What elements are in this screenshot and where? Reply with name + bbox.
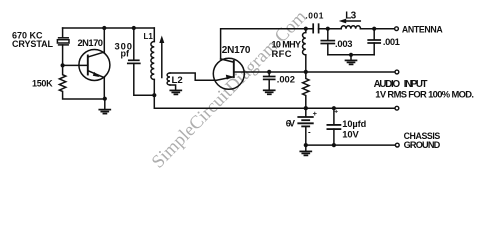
svg-text:L1: L1 bbox=[144, 32, 154, 41]
terminal: antenna bbox=[395, 27, 399, 31]
svg-text:L3: L3 bbox=[345, 11, 356, 22]
wire: rail right of series cap bbox=[319, 28, 342, 30]
node: .001 right junction bbox=[372, 27, 376, 31]
node A: crystal/base/150K junction bbox=[61, 63, 65, 67]
wire: base of Q1 bbox=[63, 64, 88, 66]
ground below C3 bbox=[264, 90, 275, 94]
transistor Q1 2N170 bbox=[79, 50, 110, 81]
svg-text:6V: 6V bbox=[286, 118, 295, 128]
svg-text:L2: L2 bbox=[172, 75, 183, 86]
svg-text:RFC: RFC bbox=[272, 48, 292, 59]
svg-text:pf: pf bbox=[121, 49, 131, 59]
wire: Q1 collector bbox=[103, 28, 105, 52]
node: 10ufd top junction bbox=[332, 106, 336, 110]
svg-text:10V: 10V bbox=[342, 128, 359, 139]
svg-text:.001: .001 bbox=[383, 36, 400, 47]
wire: tank bottom to ground rail bbox=[154, 95, 395, 108]
wire: Q2 base wire right (audio line) bbox=[234, 71, 395, 73]
node: emitter/ground junction bbox=[103, 97, 107, 101]
capacitor C3 .002 bbox=[264, 72, 275, 90]
node: 10ufd bottom junction bbox=[332, 143, 336, 147]
wire: bottom ground rail bbox=[306, 144, 395, 146]
svg-text:.001: .001 bbox=[305, 10, 323, 20]
svg-text:-: - bbox=[308, 127, 311, 136]
svg-text:.003: .003 bbox=[335, 38, 353, 49]
resistor R1 150K bbox=[59, 65, 104, 99]
battery B1 6V bbox=[298, 108, 313, 145]
node: .002 junction bbox=[267, 70, 271, 74]
svg-text:1V RMS FOR 100% MOD.: 1V RMS FOR 100% MOD. bbox=[375, 88, 474, 99]
svg-text:.002: .002 bbox=[277, 73, 295, 84]
node: battery bottom junction bbox=[304, 143, 308, 147]
node: .003 junction bbox=[326, 27, 330, 31]
capacitor C4 .001 series (plates) bbox=[313, 24, 318, 32]
inductor RFC 10MHY bbox=[303, 29, 306, 72]
wire: Q2 collector up to rail corner bbox=[221, 29, 314, 59]
capacitor C7 10ufd electrolytic bbox=[327, 108, 340, 145]
svg-text:+: + bbox=[334, 109, 338, 116]
crystal X1 670KC bbox=[57, 38, 69, 66]
svg-text:2N170: 2N170 bbox=[222, 45, 251, 56]
svg-text:+: + bbox=[313, 109, 318, 118]
ground below L2 bbox=[170, 90, 181, 94]
terminal: audio input top bbox=[395, 70, 399, 74]
wire: top-left rail y=28 bbox=[63, 27, 155, 29]
node: ground stub junction bbox=[349, 53, 353, 57]
svg-text:GROUND: GROUND bbox=[404, 140, 441, 150]
svg-text:ANTENNA: ANTENNA bbox=[402, 24, 443, 34]
arrow of L3 bbox=[339, 19, 361, 24]
arrow of L1 (tuning) bbox=[159, 36, 164, 78]
capacitor C5 .003 bbox=[321, 29, 334, 55]
ground below .003/.001 bbox=[346, 55, 357, 65]
wire: rail right of L3 bbox=[361, 28, 395, 30]
svg-text:10µfd: 10µfd bbox=[342, 119, 366, 129]
node: R2 bottom junction bbox=[304, 106, 308, 110]
svg-text:150K: 150K bbox=[32, 79, 53, 89]
node: L1/300pf bottom junction bbox=[152, 93, 156, 97]
ground below battery bbox=[300, 145, 311, 155]
wire: cap bottoms link bbox=[328, 54, 374, 56]
inductor L2 bbox=[167, 73, 176, 90]
node: RFC top junction on rail bbox=[304, 27, 308, 31]
watermark bbox=[148, 7, 311, 173]
resistor R2 (emitter/audio) bbox=[303, 72, 309, 108]
wire: L2 to Q2 emitter bbox=[170, 73, 217, 80]
node: battery top junction bbox=[304, 106, 308, 110]
node: collector junction on rail bbox=[102, 26, 106, 30]
svg-text:CRYSTAL: CRYSTAL bbox=[12, 39, 54, 49]
ground below Q1 emitter bbox=[99, 99, 110, 114]
capacitor C6 .001 shunt bbox=[368, 29, 380, 55]
capacitor C1 300pf bbox=[128, 28, 155, 95]
transistor Q2 2N170 bbox=[213, 58, 244, 89]
wire: Q1 emitter down bbox=[103, 78, 105, 99]
inductor L3 bbox=[341, 26, 360, 29]
inductor L1 bbox=[151, 28, 154, 95]
terminal: chassis ground bbox=[395, 143, 399, 147]
svg-text:2N170: 2N170 bbox=[78, 37, 104, 48]
node: 300pf junction on rail bbox=[132, 26, 136, 30]
wire: crystal drop bbox=[62, 28, 64, 38]
node: RFC bottom junction bbox=[304, 70, 308, 74]
terminal: audio input bottom bbox=[395, 106, 399, 110]
